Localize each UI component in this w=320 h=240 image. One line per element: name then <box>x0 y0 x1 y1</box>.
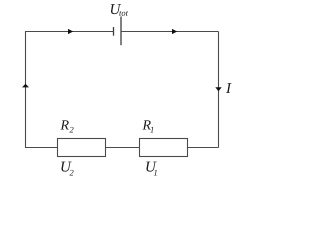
label U1 (voltage across R1) <box>146 162 156 176</box>
current arrow I (downward) on right wire <box>215 87 221 91</box>
wire: bottom segment left <box>25 147 58 149</box>
current direction arrow on top-left wire segment <box>68 29 73 34</box>
label U2 (voltage across R2) <box>61 162 73 176</box>
wire: top segment left of source <box>25 31 114 33</box>
label R1 <box>142 120 153 132</box>
label U_tot <box>111 4 128 16</box>
label I <box>226 83 232 93</box>
voltage source (battery) U_tot <box>114 17 122 46</box>
wire: top segment right of source <box>121 31 219 33</box>
current arrow (upward) on left wire <box>22 84 29 88</box>
wire: bottom segment right <box>188 147 219 149</box>
resistor R1 (body) <box>140 139 188 157</box>
current direction arrow on top-right wire segment <box>172 29 177 34</box>
wire: bottom segment between resistors <box>106 147 140 149</box>
resistor R2 (body) <box>58 139 106 157</box>
wire: left side vertical <box>25 32 27 148</box>
label R2 <box>60 120 73 132</box>
wire: right side vertical <box>218 32 220 148</box>
